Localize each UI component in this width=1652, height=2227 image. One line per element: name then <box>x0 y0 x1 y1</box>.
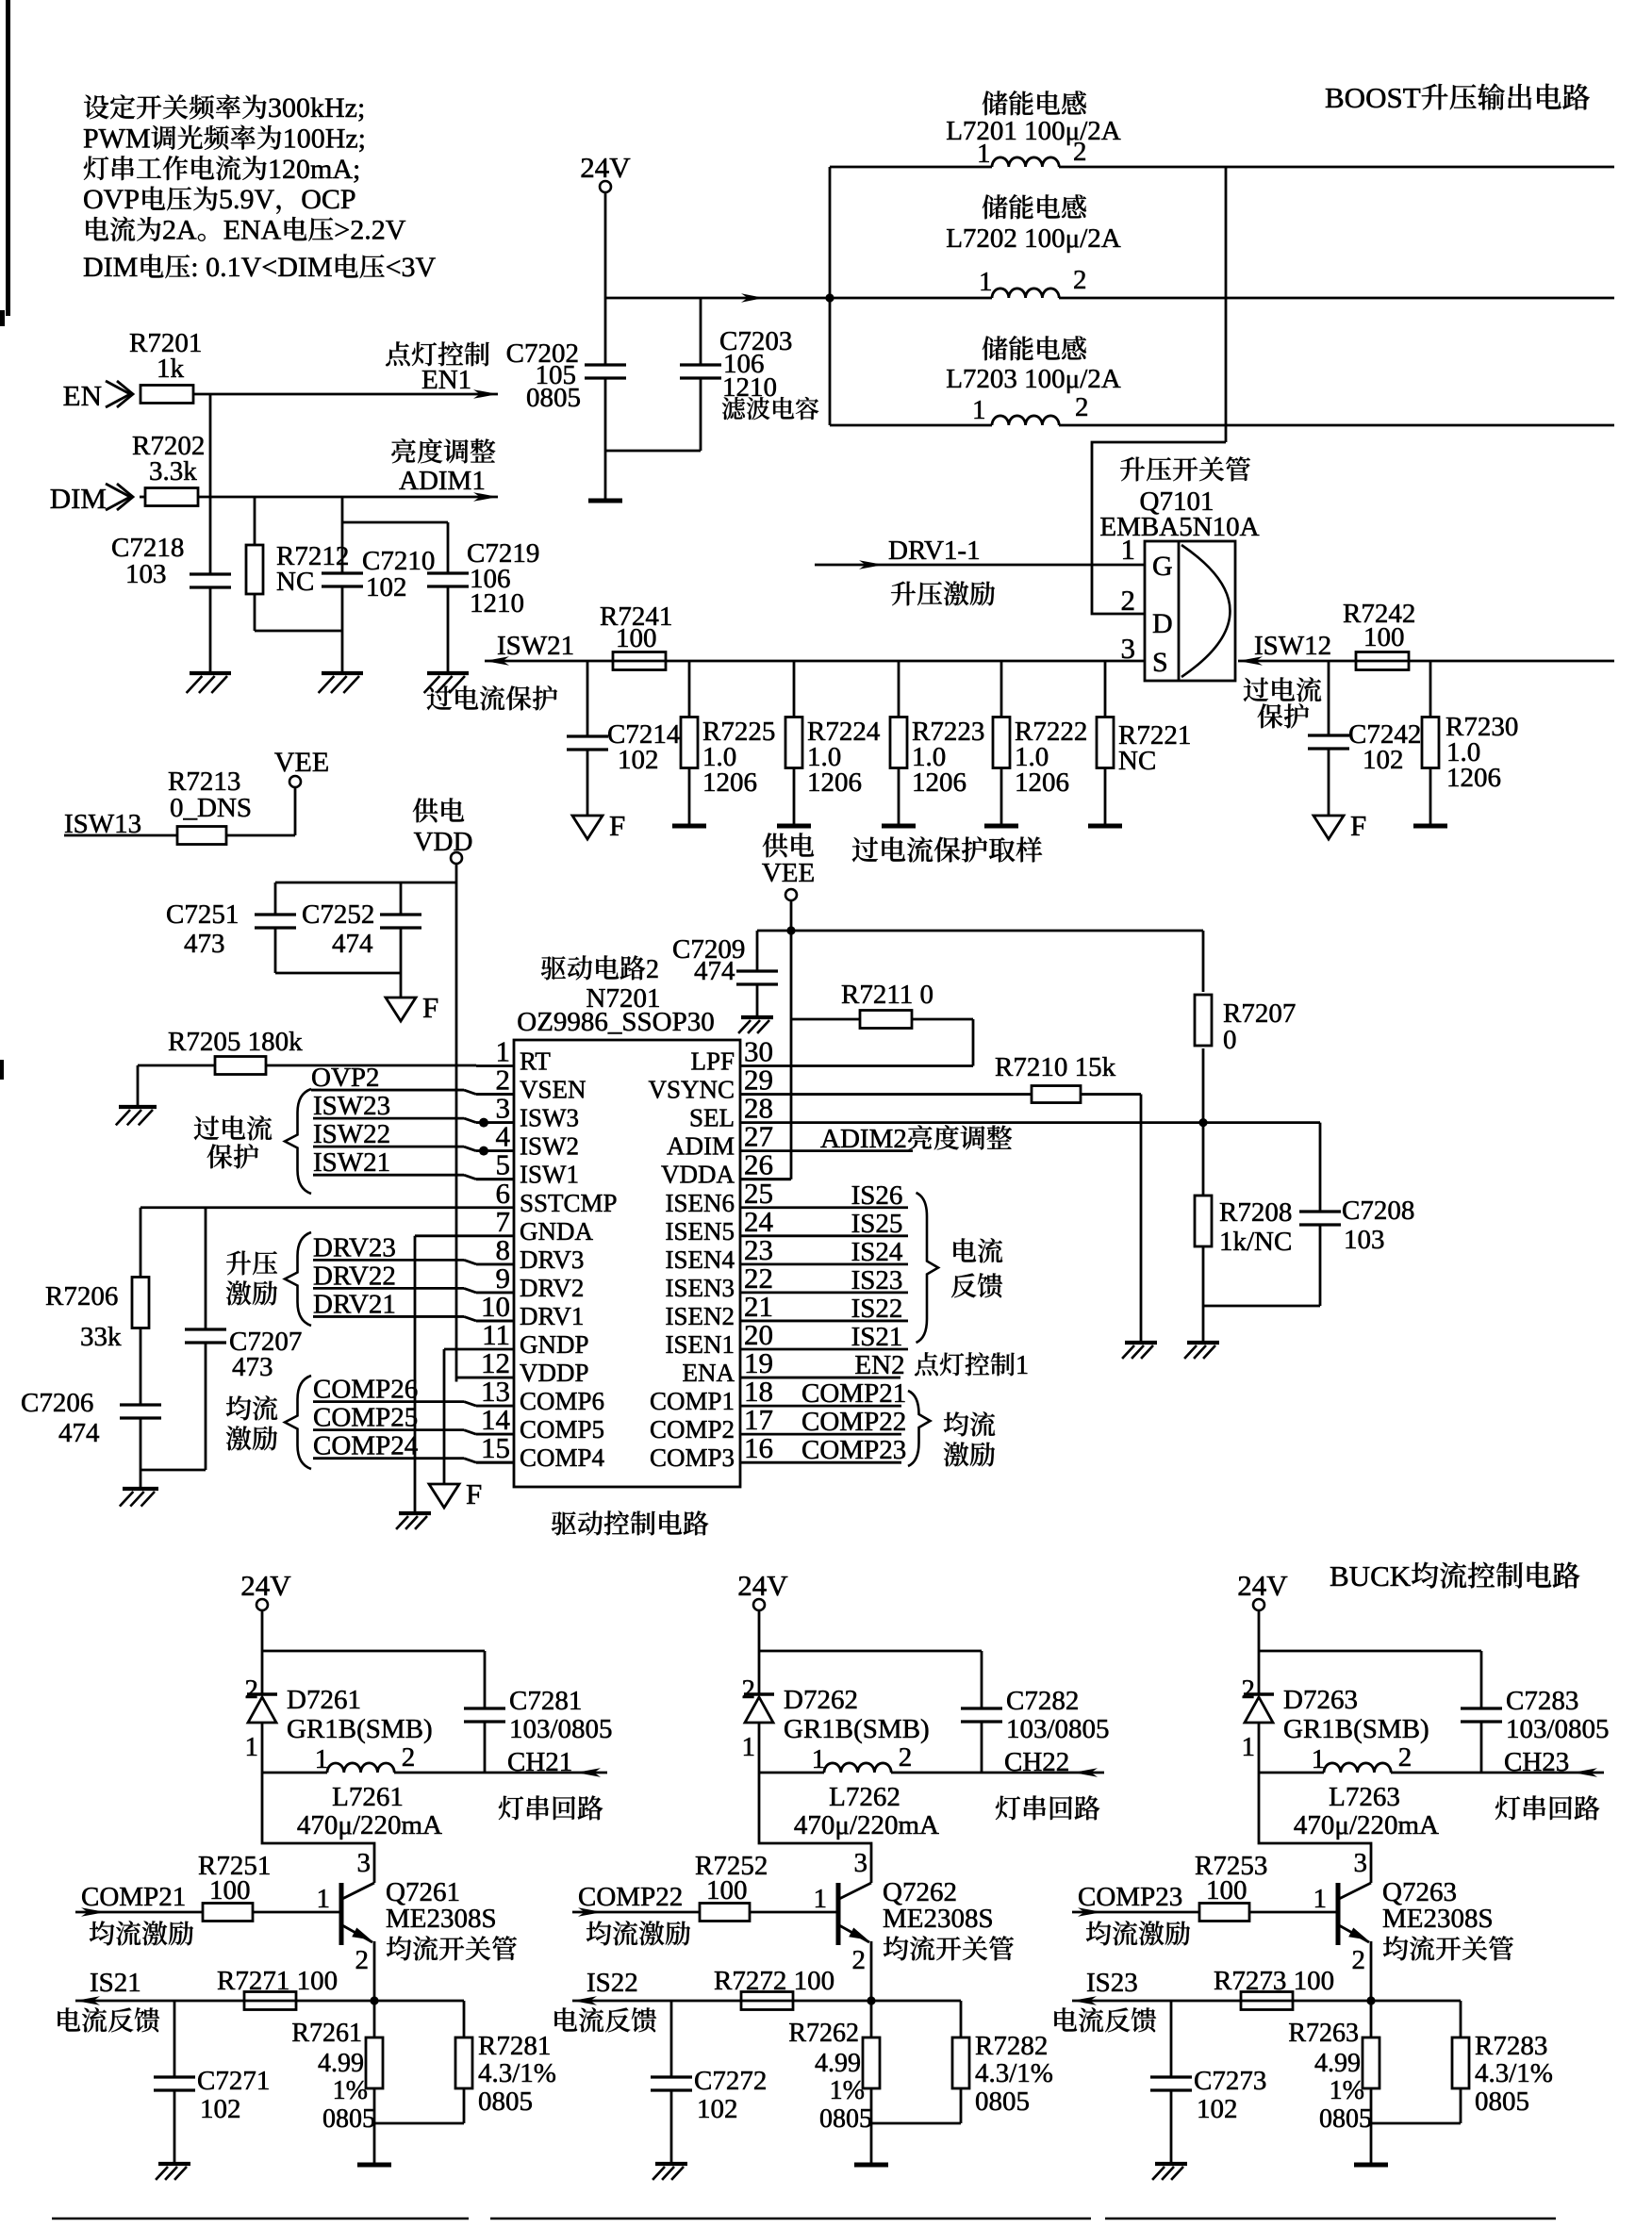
svg-text:102: 102 <box>697 2094 738 2124</box>
svg-text:RT: RT <box>520 1048 551 1076</box>
svg-text:1206: 1206 <box>807 767 862 798</box>
svg-text:CH21: CH21 <box>507 1747 572 1777</box>
svg-text:C7283: C7283 <box>1506 1686 1578 1716</box>
pin 13 COMP6 <box>476 1405 514 1408</box>
wire COMP24 <box>313 1457 464 1460</box>
wire IS21 <box>790 1348 908 1351</box>
wire top rail ch2 <box>759 1650 982 1653</box>
svg-text:D7263: D7263 <box>1283 1685 1358 1715</box>
svg-text:1: 1 <box>972 395 986 425</box>
svg-text:ISW1: ISW1 <box>520 1161 579 1189</box>
svg-text:ISEN1: ISEN1 <box>666 1330 735 1359</box>
svg-text:LPF: LPF <box>690 1048 735 1076</box>
svg-text:COMP22: COMP22 <box>578 1882 683 1912</box>
wire VEE rail <box>757 930 1203 932</box>
svg-text:1%: 1% <box>333 2076 368 2105</box>
svg-text:24V: 24V <box>240 1569 291 1602</box>
node SEL <box>1198 1118 1207 1127</box>
svg-text:2: 2 <box>1352 1945 1366 1975</box>
svg-text:C7271: C7271 <box>197 2066 270 2096</box>
svg-text:DRV23: DRV23 <box>313 1232 396 1262</box>
ground R7205 <box>119 1105 157 1109</box>
wire inductor output bus <box>1225 167 1228 442</box>
svg-text:BUCK: BUCK <box>1330 1559 1412 1592</box>
pin 9 DRV2 <box>476 1292 514 1295</box>
wire GNDA <box>415 1234 476 1237</box>
wire 24V ch1 <box>261 1610 264 1694</box>
wire R7210 to ground <box>1140 1095 1143 1343</box>
svg-text:IS25: IS25 <box>851 1209 903 1239</box>
svg-text:F: F <box>609 809 625 842</box>
svg-text:5.9V: 5.9V <box>219 184 275 215</box>
terminal VEE supply <box>763 833 814 857</box>
svg-text:1: 1 <box>1313 1884 1328 1914</box>
svg-text:0805: 0805 <box>478 2087 533 2117</box>
label OCP brace <box>285 1089 311 1194</box>
svg-text:IS21: IS21 <box>90 1968 141 1998</box>
svg-text:16: 16 <box>744 1431 773 1464</box>
svg-text:4.3/1%: 4.3/1% <box>1475 2058 1553 2088</box>
svg-text:2: 2 <box>742 1674 756 1705</box>
svg-text:VSEN: VSEN <box>520 1076 586 1104</box>
border mark <box>6 0 10 316</box>
arrow ISW12 <box>1238 656 1263 666</box>
svg-text:2: 2 <box>402 1742 416 1773</box>
wire ISW21 pin5 <box>313 1174 464 1177</box>
svg-text:1%: 1% <box>830 2076 865 2105</box>
wire R7208 C7208 bottom <box>1203 1305 1320 1308</box>
svg-text:24V: 24V <box>580 151 631 184</box>
svg-text:103/0805: 103/0805 <box>1006 1714 1110 1744</box>
pin 8 DRV3 <box>476 1262 514 1265</box>
pin 29 VSYNC <box>740 1093 790 1096</box>
pin 26 VDDA <box>740 1178 790 1180</box>
svg-text:1: 1 <box>1016 1351 1029 1380</box>
svg-text:2: 2 <box>1242 1674 1256 1705</box>
svg-text:1: 1 <box>812 1744 826 1774</box>
svg-text:GR1B(SMB): GR1B(SMB) <box>784 1714 930 1744</box>
svg-text:102: 102 <box>1363 745 1404 775</box>
svg-text:C7272: C7272 <box>694 2066 767 2096</box>
resistor R7230 <box>1429 661 1432 718</box>
svg-text:103: 103 <box>1344 1225 1385 1255</box>
svg-text:ADIM2: ADIM2 <box>820 1124 907 1154</box>
svg-text:1: 1 <box>1312 1744 1326 1774</box>
wire DRV22 <box>313 1287 464 1290</box>
svg-text:2: 2 <box>1398 1742 1412 1773</box>
svg-text:3: 3 <box>357 1848 372 1878</box>
wire top rail ch3 <box>1259 1650 1481 1653</box>
wire IS22 <box>572 2000 961 2003</box>
svg-text:DRV3: DRV3 <box>520 1245 584 1274</box>
wire caps bottom <box>275 972 401 975</box>
svg-text:L7203 100μ/2A: L7203 100μ/2A <box>946 364 1121 394</box>
svg-text:ISW12: ISW12 <box>1254 631 1331 661</box>
svg-text:33k: 33k <box>80 1322 122 1352</box>
svg-text:DRV21: DRV21 <box>313 1289 396 1319</box>
capacitor C7281 <box>484 1651 487 1708</box>
arrow COMP21 <box>75 1911 203 1914</box>
ground C7252 F <box>386 998 416 1021</box>
svg-text:COMP4: COMP4 <box>520 1443 605 1472</box>
wire IS23 <box>1072 2000 1461 2003</box>
svg-text:1: 1 <box>1121 533 1136 566</box>
wire GNDP <box>444 1348 476 1351</box>
node L7202 input <box>825 293 834 302</box>
node emitter ch2 <box>867 1996 875 2004</box>
wire VDD cap branch <box>275 882 456 884</box>
pin 25 ISEN6 <box>740 1206 790 1209</box>
svg-text:2: 2 <box>852 1945 867 1975</box>
wire DRV21 <box>313 1315 464 1318</box>
svg-text:DRV2: DRV2 <box>520 1274 584 1302</box>
arrow CH23 <box>1573 1768 1597 1777</box>
pin 27 ADIM <box>740 1149 790 1152</box>
svg-text:COMP23: COMP23 <box>1078 1882 1182 1912</box>
svg-text:ISW3: ISW3 <box>520 1104 579 1132</box>
capacitor C7242 <box>1328 661 1330 735</box>
wire SSTCMP <box>140 1206 476 1209</box>
svg-text:1210: 1210 <box>470 588 524 619</box>
wire ADIM1 <box>198 496 498 499</box>
svg-text:ENA: ENA <box>683 1359 735 1387</box>
svg-text:0805: 0805 <box>526 383 581 413</box>
wire IS26 <box>790 1206 908 1209</box>
svg-text:F: F <box>466 1477 482 1510</box>
svg-text:VEE: VEE <box>274 747 329 778</box>
svg-text:1206: 1206 <box>1446 763 1501 793</box>
wire R7213 to VEE <box>226 834 295 837</box>
svg-text:0805: 0805 <box>1475 2087 1529 2117</box>
svg-text:470μ/220mA: 470μ/220mA <box>794 1810 939 1840</box>
inductor L7203 <box>983 336 1086 360</box>
capacitor C7252 <box>400 883 403 915</box>
svg-text:DIM: DIM <box>50 482 107 515</box>
ground Q7261 <box>357 2163 391 2168</box>
svg-text:S: S <box>1152 647 1168 678</box>
svg-text:1206: 1206 <box>912 767 966 798</box>
svg-text:102: 102 <box>366 572 407 602</box>
label ADIM2 <box>820 1124 1012 1154</box>
wire R7212 bottom <box>255 630 342 633</box>
wire VDDA bus <box>790 931 793 1179</box>
svg-text:OZ9986_SSOP30: OZ9986_SSOP30 <box>517 1007 715 1037</box>
svg-text:473: 473 <box>232 1352 273 1382</box>
svg-text:COMP23: COMP23 <box>801 1435 906 1465</box>
svg-text:15: 15 <box>481 1431 510 1464</box>
arrow IS23 <box>1072 1996 1097 2005</box>
svg-text:ISEN5: ISEN5 <box>666 1217 735 1245</box>
svg-text:IS21: IS21 <box>851 1322 903 1352</box>
node VEE <box>786 926 795 934</box>
svg-text:IS22: IS22 <box>851 1294 903 1324</box>
svg-text:SSTCMP: SSTCMP <box>520 1189 618 1217</box>
svg-text:COMP22: COMP22 <box>801 1407 906 1437</box>
svg-text:L7261: L7261 <box>332 1782 404 1812</box>
svg-text:CH22: CH22 <box>1004 1747 1069 1777</box>
wire COMP22 <box>790 1433 901 1436</box>
svg-text:NC: NC <box>1118 746 1156 776</box>
svg-text:100: 100 <box>1206 1875 1247 1905</box>
wire to Q7262 <box>759 1773 871 1883</box>
svg-text:103: 103 <box>125 559 167 589</box>
wire DRV1-1 to gate <box>815 564 1145 567</box>
svg-text:0805: 0805 <box>1319 2104 1372 2134</box>
wire inductor input bus <box>829 167 832 425</box>
svg-text:120mA;: 120mA; <box>268 154 360 185</box>
svg-text:OVP2: OVP2 <box>311 1063 380 1093</box>
svg-text:L7263: L7263 <box>1329 1782 1400 1812</box>
svg-text:474: 474 <box>58 1418 100 1448</box>
resistor R7222 <box>1000 661 1003 718</box>
wire IS23 <box>790 1292 908 1295</box>
svg-text:1k: 1k <box>157 354 185 384</box>
svg-text:IS26: IS26 <box>851 1180 903 1211</box>
svg-text:OVP: OVP <box>83 184 140 215</box>
svg-text:2: 2 <box>1121 584 1136 617</box>
label COMP brace <box>285 1376 311 1469</box>
ground R7223 <box>882 824 916 829</box>
arrow IS21 <box>75 1996 100 2005</box>
svg-text:EN2: EN2 <box>854 1350 904 1380</box>
ground R7221 <box>1088 824 1122 829</box>
svg-text:ME2308S: ME2308S <box>883 1904 994 1934</box>
svg-text:ENA: ENA <box>223 215 282 246</box>
svg-text:C7281: C7281 <box>509 1686 582 1716</box>
svg-text:3: 3 <box>1354 1848 1368 1878</box>
label COMP2x brace <box>908 1391 931 1466</box>
svg-text:COMP25: COMP25 <box>313 1403 418 1433</box>
svg-text:COMP21: COMP21 <box>801 1378 906 1409</box>
svg-text:D7262: D7262 <box>784 1685 858 1715</box>
ground R7224 <box>777 824 811 829</box>
svg-text:ISW21: ISW21 <box>313 1147 390 1178</box>
svg-text:COMP6: COMP6 <box>520 1387 604 1415</box>
capacitor C7214 <box>586 661 589 736</box>
wire 24V ch2 <box>758 1610 761 1694</box>
svg-text:1206: 1206 <box>702 767 757 798</box>
pin 15 COMP4 <box>476 1461 514 1464</box>
svg-text:VDD: VDD <box>414 827 473 857</box>
pin 28 SEL <box>740 1121 790 1124</box>
svg-text:F: F <box>422 991 438 1024</box>
ground R7230 <box>1413 824 1447 829</box>
svg-text:103/0805: 103/0805 <box>1506 1714 1610 1744</box>
label OCP sampling <box>852 836 1042 862</box>
inductor L7262 <box>759 1772 824 1774</box>
svg-text:VEE: VEE <box>762 858 815 888</box>
ground R7210 <box>1125 1341 1157 1344</box>
bottom frame line <box>52 2218 469 2219</box>
svg-text:DRV22: DRV22 <box>313 1261 396 1291</box>
svg-text:470μ/220mA: 470μ/220mA <box>297 1810 442 1840</box>
svg-text:C7208: C7208 <box>1342 1196 1414 1226</box>
svg-text:L7262: L7262 <box>829 1782 900 1812</box>
svg-text:ISEN2: ISEN2 <box>666 1302 735 1330</box>
svg-text:D7261: D7261 <box>287 1685 361 1715</box>
svg-text:R7261: R7261 <box>291 2019 362 2048</box>
wire to Q7263 <box>1259 1773 1371 1883</box>
ground Q7263 <box>1354 2163 1388 2168</box>
svg-text:VDDP: VDDP <box>520 1359 589 1387</box>
svg-text:1206: 1206 <box>1015 767 1069 798</box>
arrow IS22 <box>572 1996 597 2005</box>
wire EN2 <box>790 1377 900 1379</box>
svg-text:100Hz;: 100Hz; <box>283 123 366 154</box>
wire EN to C7218 <box>209 394 212 574</box>
svg-text:4.3/1%: 4.3/1% <box>478 2058 556 2088</box>
svg-text:COMP1: COMP1 <box>650 1387 735 1415</box>
arrow COMP22 <box>572 1911 700 1914</box>
svg-text:0805: 0805 <box>819 2104 872 2134</box>
wire SEL <box>790 1121 1320 1124</box>
label EN1 <box>386 341 489 366</box>
svg-text:102: 102 <box>200 2094 241 2124</box>
inductor L7201 <box>983 91 1086 115</box>
svg-text:R7205 180k: R7205 180k <box>168 1027 303 1057</box>
transistor Q7101 <box>1120 456 1250 481</box>
wire ISW13 <box>64 834 177 837</box>
svg-text:1: 1 <box>977 139 991 169</box>
pin 2 VSEN <box>476 1093 514 1096</box>
wire DIM branch C7210 <box>341 497 344 573</box>
svg-text:NC: NC <box>276 567 314 597</box>
pin 16 COMP3 <box>740 1461 790 1464</box>
svg-text:1: 1 <box>742 1732 756 1762</box>
terminal VDD supply <box>413 798 464 822</box>
pin 21 ISEN2 <box>740 1320 790 1323</box>
svg-text:GNDA: GNDA <box>520 1217 593 1245</box>
svg-text:VSYNC: VSYNC <box>648 1076 735 1104</box>
wire VDD <box>455 864 458 1382</box>
resistor R7223 <box>898 661 900 718</box>
svg-text:COMP5: COMP5 <box>520 1415 604 1443</box>
arrow EN1 <box>473 389 498 399</box>
wire ISW21 rail <box>485 660 1145 663</box>
svg-text:C7273: C7273 <box>1194 2066 1266 2096</box>
svg-text:0: 0 <box>1223 1025 1237 1055</box>
capacitor C7251 <box>274 883 277 915</box>
pin 11 GNDP <box>476 1348 514 1351</box>
svg-text:R7208: R7208 <box>1219 1197 1292 1228</box>
svg-text:EN: EN <box>63 379 102 412</box>
svg-text:4.99: 4.99 <box>1314 2049 1361 2078</box>
svg-text:C7251: C7251 <box>166 899 239 930</box>
wire COMP26 <box>313 1400 464 1403</box>
pin 30 LPF <box>740 1064 790 1067</box>
wire 24V ch3 <box>1258 1610 1261 1694</box>
wire VEE terminal <box>790 900 793 931</box>
capacitor C7203 <box>700 298 702 365</box>
svg-text:R7210 15k: R7210 15k <box>995 1052 1116 1082</box>
svg-text:DIM: DIM <box>83 252 138 283</box>
pin 10 DRV1 <box>476 1320 514 1323</box>
IC N7201 body <box>514 1040 740 1487</box>
ground C7272 <box>655 2162 687 2166</box>
svg-text:ADIM: ADIM <box>667 1132 735 1161</box>
svg-text:G: G <box>1152 551 1173 582</box>
svg-text:GNDP: GNDP <box>520 1330 589 1359</box>
svg-text:100: 100 <box>209 1875 251 1905</box>
wire to C7219 <box>342 521 448 524</box>
note text block <box>84 92 365 124</box>
svg-text:2: 2 <box>1075 392 1089 422</box>
capacitor C7207 <box>205 1208 207 1329</box>
ground C7206 <box>123 1487 158 1491</box>
pin 22 ISEN3 <box>740 1292 790 1295</box>
svg-text:PWM: PWM <box>83 123 151 154</box>
wire 24V <box>604 192 607 365</box>
svg-text:R7206: R7206 <box>45 1281 118 1311</box>
inductor L7263 <box>1259 1772 1324 1774</box>
svg-text:GR1B(SMB): GR1B(SMB) <box>1283 1714 1429 1744</box>
svg-text:473: 473 <box>184 929 225 959</box>
ground C7202 <box>588 499 622 503</box>
svg-text:ISW2: ISW2 <box>520 1132 579 1161</box>
svg-text:2A: 2A <box>162 215 197 246</box>
pin 20 ISEN1 <box>740 1348 790 1351</box>
arrow CH21 <box>576 1768 601 1777</box>
svg-text:SEL: SEL <box>689 1104 735 1132</box>
ground C7219 <box>427 671 469 675</box>
svg-text:4.99: 4.99 <box>318 2049 364 2078</box>
svg-text:IS24: IS24 <box>851 1237 903 1267</box>
wire R7262 R7282 bottom <box>871 2122 961 2125</box>
wire DRV23 <box>313 1259 464 1262</box>
ground C7271 <box>158 2162 190 2166</box>
svg-text:GR1B(SMB): GR1B(SMB) <box>287 1714 433 1744</box>
svg-text:ADIM1: ADIM1 <box>399 466 486 496</box>
wire top rail ch1 <box>262 1650 485 1653</box>
svg-text:100: 100 <box>706 1875 748 1905</box>
ground R7222 <box>984 824 1018 829</box>
svg-text:CH23: CH23 <box>1504 1747 1569 1777</box>
wire IS24 <box>790 1262 908 1265</box>
node emitter ch1 <box>370 1996 378 2004</box>
svg-text:OCP: OCP <box>301 184 355 215</box>
ground C7242 F <box>1313 816 1344 839</box>
resistor R7224 <box>793 661 796 718</box>
inductor L7202 <box>983 194 1086 219</box>
arrow ADIM1 <box>473 492 498 502</box>
svg-text:474: 474 <box>332 929 373 959</box>
wire ISW23 <box>313 1117 464 1120</box>
svg-text:ISW22: ISW22 <box>313 1119 390 1149</box>
svg-text:2: 2 <box>355 1945 370 1975</box>
svg-text:4.99: 4.99 <box>815 2049 861 2078</box>
ground C7218 <box>190 671 231 675</box>
pin 7 GNDA <box>476 1234 514 1237</box>
wire DIM branch R7212 <box>254 497 256 545</box>
pin 19 ENA <box>740 1377 790 1379</box>
svg-text:1: 1 <box>814 1884 828 1914</box>
svg-text:102: 102 <box>1197 2094 1238 2124</box>
svg-text:D: D <box>1152 608 1173 639</box>
svg-text:ISEN3: ISEN3 <box>666 1274 735 1302</box>
pin 6 SSTCMP <box>476 1206 514 1209</box>
arrow CH22 <box>1073 1768 1098 1777</box>
pin 4 ISW2 <box>476 1149 514 1152</box>
inductor L7261 <box>262 1772 327 1774</box>
wire VDDP <box>456 1377 476 1379</box>
svg-text:1: 1 <box>245 1732 259 1762</box>
svg-text:ISW21: ISW21 <box>497 631 574 661</box>
ground C7209 <box>741 1015 773 1019</box>
wire OVP2 <box>311 1089 464 1092</box>
wire ISW22 <box>313 1146 464 1148</box>
svg-text:100: 100 <box>616 623 657 653</box>
svg-text:3.3k: 3.3k <box>149 456 197 487</box>
